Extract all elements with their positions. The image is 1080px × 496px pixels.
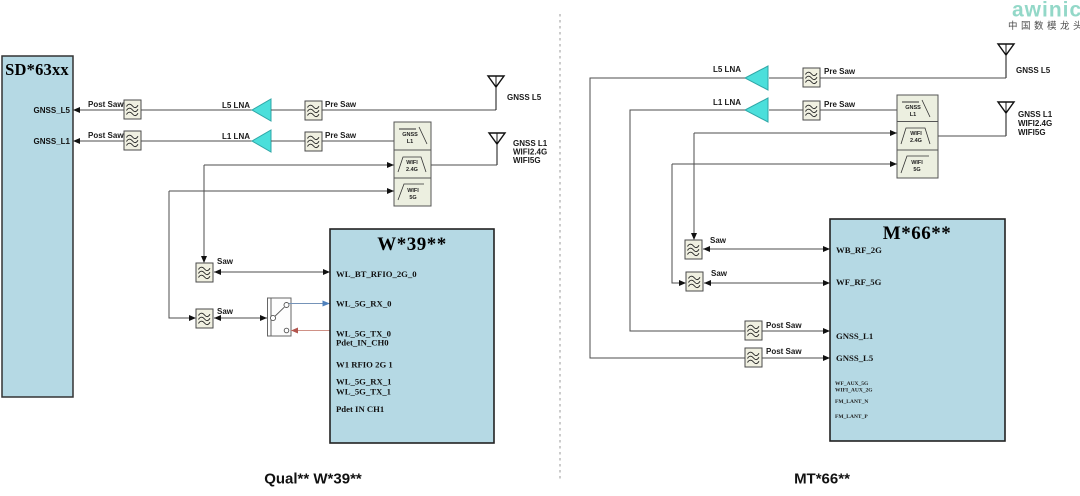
wire switch to WL_5G_RX_0 (blue) <box>289 301 330 307</box>
svg-text:WL_5G_TX_1: WL_5G_TX_1 <box>336 387 391 397</box>
triplexer (left) <box>394 122 431 206</box>
svg-text:WF_AUX_5G: WF_AUX_5G <box>835 381 869 387</box>
svg-text:M*66**: M*66** <box>883 223 951 244</box>
wire L1 row: SD to Post Saw <box>73 138 124 144</box>
wire Post Saw to M*66** GNSS_L5 <box>762 355 830 361</box>
svg-text:WIFI: WIFI <box>407 188 419 194</box>
antenna GNSS L1/WIFI (left) <box>489 133 548 165</box>
chip W*39** <box>330 229 494 443</box>
svg-text:WIFI: WIFI <box>911 160 923 166</box>
svg-text:Post Saw: Post Saw <box>88 100 124 109</box>
LNA L5 (right) <box>713 65 768 90</box>
wire triplexer to antenna (left) <box>431 164 497 166</box>
divider dashed line <box>559 14 561 482</box>
filter Pre Saw (L5 right) <box>803 67 856 87</box>
svg-text:awinic: awinic <box>1012 0 1080 22</box>
filter Pre Saw (L1 left) <box>305 131 357 151</box>
svg-text:WL_BT_RFIO_2G_0: WL_BT_RFIO_2G_0 <box>336 269 417 279</box>
wire Pre Saw to LNA (right L1) <box>769 109 803 111</box>
svg-text:WIFI5G: WIFI5G <box>1018 128 1046 137</box>
svg-text:Saw: Saw <box>710 236 727 245</box>
antenna GNSS L5 (left) <box>488 76 542 110</box>
svg-text:GNSS_L5: GNSS_L5 <box>836 353 874 363</box>
svg-text:FM_LANT_N: FM_LANT_N <box>835 399 868 405</box>
filter Post Saw (L1 right) <box>745 321 802 340</box>
svg-text:5G: 5G <box>913 167 920 173</box>
wire Post Saw to L5 LNA <box>141 109 252 111</box>
wire Pre Saw to LNA (right L5) <box>769 77 803 79</box>
svg-text:GNSS_L1: GNSS_L1 <box>34 137 71 146</box>
svg-text:GNSS_L5: GNSS_L5 <box>34 106 71 115</box>
chip SD*63xx <box>2 56 73 397</box>
LNA L5 (left) <box>222 99 271 121</box>
wire triplexer to antenna (right) <box>938 135 1006 137</box>
svg-text:WIFI: WIFI <box>406 160 418 166</box>
switch SPDT <box>268 298 292 336</box>
wire Saw to M*66** WB_RF_2G <box>703 246 830 252</box>
svg-text:Saw: Saw <box>217 307 234 316</box>
svg-text:Pre Saw: Pre Saw <box>325 100 357 109</box>
wire Saw to W*39** WL_BT_RFIO_2G_0 <box>214 269 330 275</box>
wire L5 row: SD to Post Saw <box>73 107 124 113</box>
svg-text:Saw: Saw <box>711 269 728 278</box>
filter Pre Saw (L1 right) <box>803 100 856 120</box>
wire Post Saw to M*66** GNSS_L1 <box>762 328 830 334</box>
wire Saw to switch <box>214 315 267 321</box>
svg-text:Qual** W*39**: Qual** W*39** <box>264 471 362 488</box>
filter Pre Saw (L5 left) <box>305 100 357 120</box>
filter Saw (5G right) <box>686 269 728 291</box>
svg-text:WIFI5G: WIFI5G <box>513 156 541 165</box>
svg-text:2.4G: 2.4G <box>910 138 922 144</box>
triplexer (right) <box>897 95 938 178</box>
filter Saw (2.4G right) <box>685 236 727 259</box>
svg-text:中国数模龙头: 中国数模龙头 <box>1008 20 1080 32</box>
antenna GNSS L1/WIFI (right) <box>998 102 1053 137</box>
svg-text:WIFI2.4G: WIFI2.4G <box>1018 119 1052 128</box>
logo awinic <box>1008 0 1080 32</box>
wire WL_5G_TX_0 to switch (red) <box>291 328 330 334</box>
svg-text:GNSS L1: GNSS L1 <box>1018 110 1053 119</box>
wire Pre Saw to antenna L5 <box>322 109 496 111</box>
svg-text:Pdet IN CH1: Pdet IN CH1 <box>336 404 384 414</box>
svg-text:WL_5G_RX_0: WL_5G_RX_0 <box>336 299 392 309</box>
svg-text:2.4G: 2.4G <box>406 167 418 173</box>
svg-text:Post Saw: Post Saw <box>766 347 802 356</box>
filter Post Saw (L5 right) <box>745 347 802 367</box>
svg-text:SD*63xx: SD*63xx <box>5 60 69 79</box>
wire triplexer GNSS L1 port to Pre Saw (right) <box>820 109 897 111</box>
filter Post Saw (L1 left) <box>88 131 141 150</box>
svg-text:FM_LANT_P: FM_LANT_P <box>835 414 868 420</box>
wire Post Saw to L1 LNA <box>141 140 252 142</box>
antenna GNSS L5 (right) <box>998 44 1051 78</box>
svg-text:GNSS L5: GNSS L5 <box>1016 66 1051 75</box>
svg-text:Post Saw: Post Saw <box>766 321 802 330</box>
svg-text:L1 LNA: L1 LNA <box>222 132 250 141</box>
svg-text:WIFI: WIFI <box>910 131 922 137</box>
svg-text:L5 LNA: L5 LNA <box>222 101 250 110</box>
wire LNA around to Post Saw (right L5) <box>590 78 745 358</box>
svg-text:Pdet_IN_CH0: Pdet_IN_CH0 <box>336 338 389 348</box>
svg-text:GNSS: GNSS <box>905 105 921 111</box>
wire WIFI5G to Saw (left) <box>169 188 394 321</box>
wire Saw to M*66** WF_RF_5G <box>704 280 830 286</box>
svg-text:L1: L1 <box>407 139 413 145</box>
svg-text:GNSS: GNSS <box>402 132 418 138</box>
wire antenna to Pre Saw (right L5) <box>820 77 1006 79</box>
wire WIFI2.4G to Saw (right) <box>691 130 897 240</box>
svg-text:MT*66**: MT*66** <box>794 471 850 488</box>
wire L5 LNA to Pre Saw <box>271 109 305 111</box>
svg-text:W*39**: W*39** <box>377 234 447 255</box>
svg-text:Pre Saw: Pre Saw <box>325 131 357 140</box>
wire L1 LNA to Pre Saw <box>271 140 305 142</box>
svg-text:WL_5G_RX_1: WL_5G_RX_1 <box>336 377 392 387</box>
svg-text:WF_RF_5G: WF_RF_5G <box>836 277 882 287</box>
svg-text:L5 LNA: L5 LNA <box>713 65 741 74</box>
svg-text:WIFI_AUX_2G: WIFI_AUX_2G <box>835 388 873 394</box>
filter Saw (2.4G left) <box>196 257 234 282</box>
svg-text:5G: 5G <box>409 195 416 201</box>
filter Saw (5G left) <box>196 307 234 328</box>
svg-text:L1 LNA: L1 LNA <box>713 98 741 107</box>
svg-text:WB_RF_2G: WB_RF_2G <box>836 245 882 255</box>
svg-text:Pre Saw: Pre Saw <box>824 100 856 109</box>
svg-text:GNSS_L1: GNSS_L1 <box>836 331 873 341</box>
svg-text:W1 RFIO 2G 1: W1 RFIO 2G 1 <box>336 360 393 370</box>
filter Post Saw (L5 left) <box>88 100 141 119</box>
LNA L1 (left) <box>222 130 271 152</box>
wire LNA around to Post Saw (right L1) <box>630 110 745 331</box>
wire WIFI2.4G to Saw (left) <box>201 162 394 263</box>
svg-text:Pre Saw: Pre Saw <box>824 67 856 76</box>
svg-text:Saw: Saw <box>217 257 234 266</box>
svg-text:GNSS L5: GNSS L5 <box>507 93 542 102</box>
wire WIFI5G to Saw (right) <box>672 161 897 286</box>
svg-text:Post Saw: Post Saw <box>88 131 124 140</box>
wire Pre Saw to triplexer GNSS L1 port <box>322 140 394 142</box>
chip M*66** <box>830 219 1005 441</box>
LNA L1 (right) <box>713 98 768 122</box>
svg-text:L1: L1 <box>910 112 916 118</box>
